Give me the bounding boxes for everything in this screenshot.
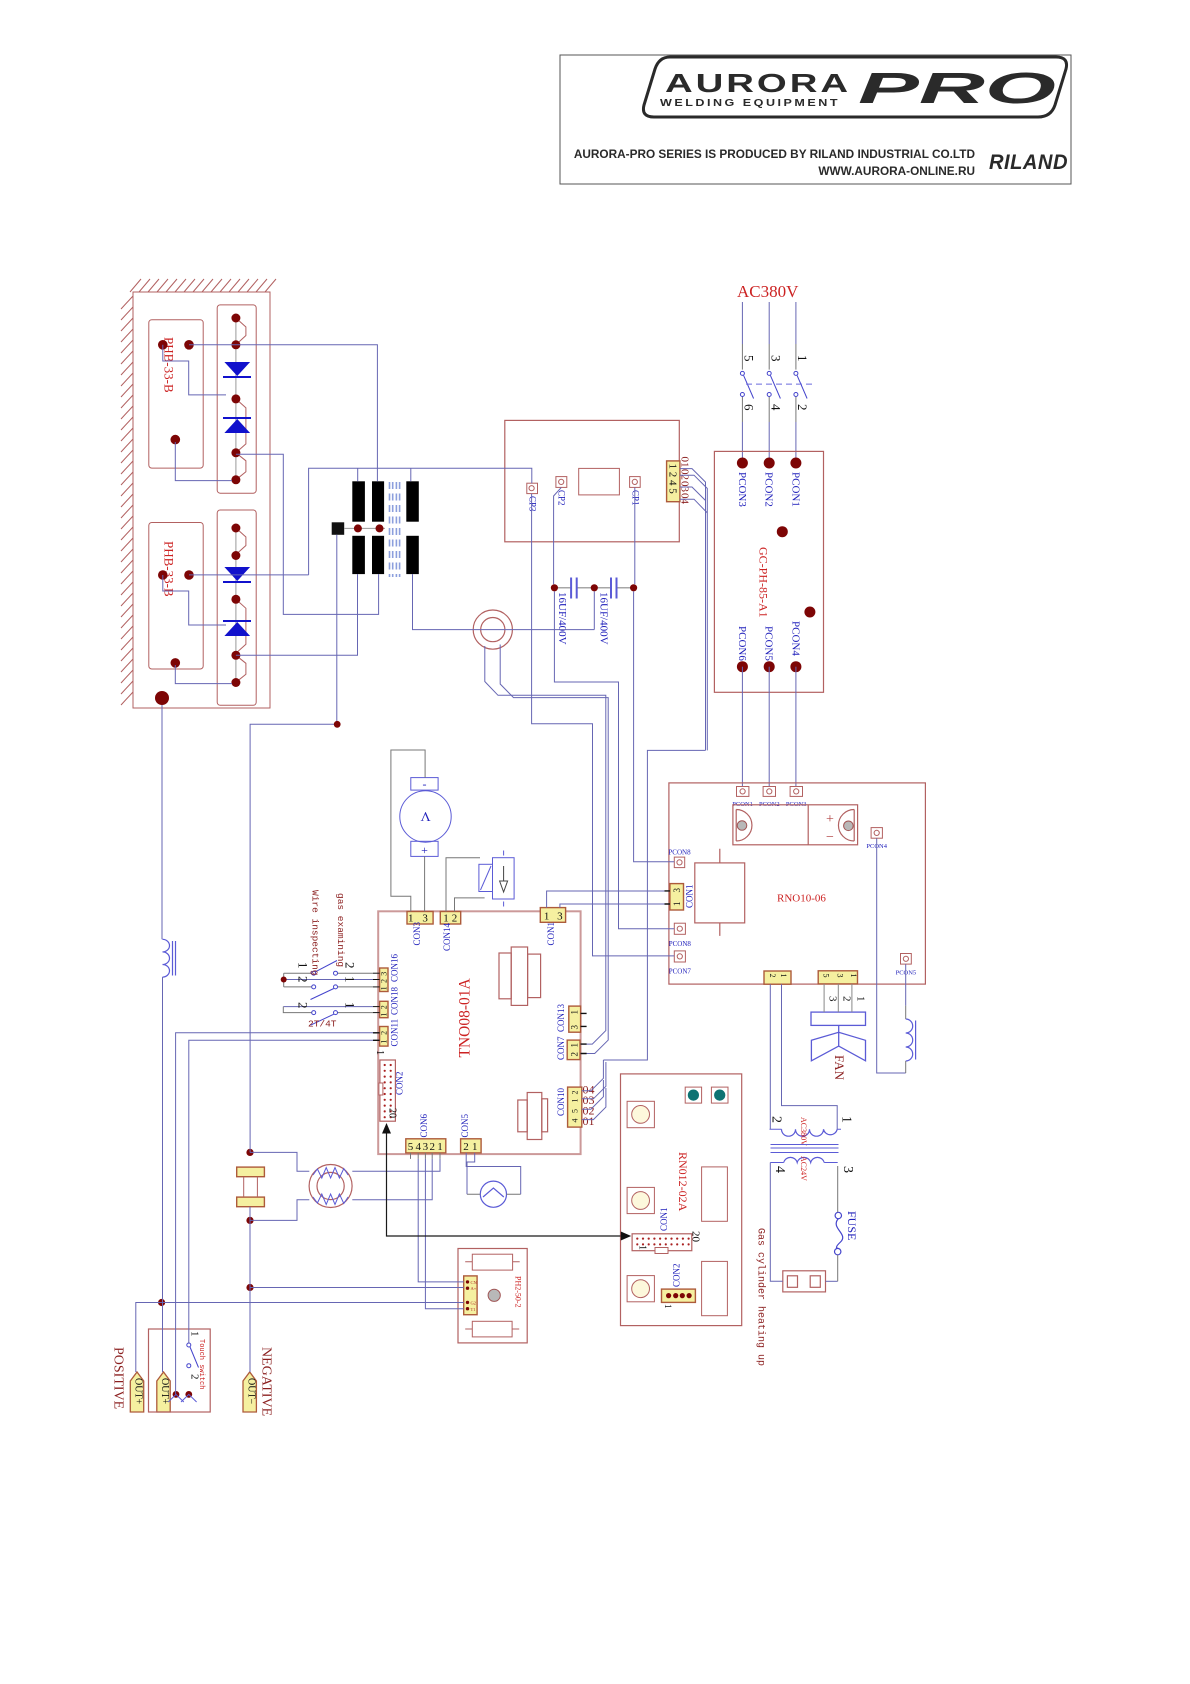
output connector 2pin xyxy=(764,971,791,984)
PCON4 choke xyxy=(906,1019,916,1061)
switch common wire xyxy=(283,973,285,987)
CP2 pad xyxy=(556,477,567,488)
capacitor bus node dots xyxy=(551,584,558,591)
diode D3 xyxy=(224,567,250,581)
relay footprint xyxy=(695,863,745,923)
CP1 pad xyxy=(630,477,641,488)
svg-text:1: 1 xyxy=(544,911,550,923)
TNO08-01A board outline xyxy=(378,911,580,1154)
svg-text:4: 4 xyxy=(415,1141,421,1153)
PCON5 pad xyxy=(901,954,912,965)
voltmeter body xyxy=(400,791,451,842)
PCON1 input pad xyxy=(737,787,749,797)
lower diode chain spine xyxy=(235,528,237,683)
svg-text:2: 2 xyxy=(570,1091,579,1095)
upper module terminal dots xyxy=(158,340,194,444)
switch sw-2T4T row3 xyxy=(283,1002,379,1025)
svg-text:WELDING EQUIPMENT: WELDING EQUIPMENT xyxy=(660,98,840,109)
wire CON11 pin2 to touch dot xyxy=(176,1033,380,1395)
wire CON14 pin2 to valve xyxy=(455,898,485,912)
lower chain red jogs xyxy=(236,528,246,682)
CON7 connector xyxy=(567,1040,580,1060)
wire fanconn pin1 to xfmr2 xyxy=(769,984,771,1129)
switch sw-wire row2 xyxy=(284,985,380,1000)
svg-text:1: 1 xyxy=(570,1099,579,1103)
led green 2 xyxy=(711,1087,728,1103)
svg-text:1: 1 xyxy=(849,974,858,978)
svg-text:CON2: CON2 xyxy=(671,1263,681,1287)
PCON2 pad dot xyxy=(764,458,775,469)
wire module2 to 308 riser xyxy=(189,574,309,576)
ph2 button xyxy=(488,1289,500,1301)
capacitor C1 plates xyxy=(571,578,577,599)
heatsink wall outline xyxy=(133,292,270,708)
svg-text:PCON1: PCON1 xyxy=(789,472,801,507)
OUT+ flag 2 xyxy=(157,1372,170,1412)
ph2 pad top xyxy=(472,1254,512,1270)
svg-text:AC24V: AC24V xyxy=(799,1156,808,1181)
PCON5 pad dot xyxy=(764,661,775,672)
svg-text:1 2 4 5: 1 2 4 5 xyxy=(667,464,679,495)
breaker pole 2 xyxy=(767,371,780,398)
svg-text:2: 2 xyxy=(768,974,777,978)
CON2 connector rn012 xyxy=(662,1289,696,1302)
svg-text:V: V xyxy=(420,808,430,823)
diode D2 xyxy=(224,419,250,433)
wire net02 diag xyxy=(680,475,708,750)
CON5 connector xyxy=(461,1139,482,1153)
heatsink hatching left xyxy=(121,296,133,705)
wire net03 diag xyxy=(680,487,706,501)
phase wires above breaker xyxy=(742,302,796,344)
svg-text:PCON4: PCON4 xyxy=(789,621,801,656)
svg-text:3: 3 xyxy=(380,972,389,976)
svg-text:CON3: CON3 xyxy=(412,921,422,945)
svg-text:2: 2 xyxy=(296,976,311,983)
wire branch col1 top xyxy=(357,468,359,481)
wire out-plus sense xyxy=(162,1302,464,1304)
svg-text:6: 6 xyxy=(742,404,757,411)
output stud terminal xyxy=(155,691,169,705)
RN010-06 board outline xyxy=(669,783,926,984)
secondary winding bars xyxy=(406,481,419,521)
breaker pole 3 xyxy=(794,371,807,398)
svg-text:2T/4T: 2T/4T xyxy=(308,1019,337,1030)
svg-text:CON10: CON10 xyxy=(556,1087,566,1116)
fan wires xyxy=(824,984,852,1012)
wire branch secondary top xyxy=(410,468,412,481)
wire CON10 fan A xyxy=(582,1060,604,1091)
svg-text:OUT+: OUT+ xyxy=(159,1378,170,1405)
wires into GC-PH board xyxy=(742,422,796,463)
svg-text:1: 1 xyxy=(380,1013,389,1017)
CON16 connector xyxy=(380,968,388,992)
wire CON6 pin stubs xyxy=(411,1153,441,1159)
svg-text:PHB-33-B: PHB-33-B xyxy=(162,541,177,597)
wire CT lead A to CON7 pin1 xyxy=(485,646,606,1044)
wire CON6 pin3 to ph2 xyxy=(425,1159,463,1309)
wire CP3 net to PCON7 xyxy=(532,494,675,956)
svg-text:CON6: CON6 xyxy=(419,1113,429,1137)
svg-text:CON5: CON5 xyxy=(460,1113,470,1137)
wire xfmr2 sec left to heater xyxy=(770,1163,783,1282)
wire CON11 pin1 to touch switch xyxy=(189,1040,380,1343)
FAN blades xyxy=(811,1032,865,1061)
svg-text:2: 2 xyxy=(296,1002,311,1009)
svg-text:GC-PH-85-A1: GC-PH-85-A1 xyxy=(757,547,771,618)
svg-text:−: − xyxy=(826,830,834,845)
wire CP1 drop xyxy=(634,487,636,584)
wire CON14 pin1 to valve xyxy=(446,858,480,912)
svg-text:16UF/400V: 16UF/400V xyxy=(597,592,609,645)
wire voltmeter loop xyxy=(391,750,425,912)
center tap dots xyxy=(354,524,362,532)
OUT+ flag 1 xyxy=(130,1372,143,1412)
svg-text:1: 1 xyxy=(854,996,866,1002)
wire top bus module1 to primary xyxy=(189,345,377,482)
CON3 connector xyxy=(407,912,433,925)
ferrite ring xyxy=(473,610,512,649)
CON14 connector xyxy=(440,912,460,925)
svg-text:OUT−: OUT− xyxy=(245,1378,256,1405)
svg-text:CP3: CP3 xyxy=(528,496,538,512)
svg-text:1: 1 xyxy=(569,1010,579,1015)
svg-text:3: 3 xyxy=(422,913,428,925)
display rect 1 xyxy=(702,1167,728,1221)
svg-text:5: 5 xyxy=(742,355,757,362)
svg-text:PCON8: PCON8 xyxy=(669,940,692,948)
wire chain2 to primary col1 xyxy=(236,574,358,655)
CP3 pad xyxy=(527,483,538,493)
svg-text:01: 01 xyxy=(583,1114,595,1128)
CON6 connector xyxy=(406,1139,446,1153)
wire snubber down xyxy=(336,535,338,725)
svg-text:CON18: CON18 xyxy=(389,986,399,1015)
CON18 connector xyxy=(380,1001,388,1017)
gas heater connector xyxy=(783,1271,826,1292)
capacitor C2 plates xyxy=(611,578,617,599)
svg-text:2: 2 xyxy=(380,979,389,983)
svg-text:FUSE: FUSE xyxy=(845,1211,859,1240)
svg-text:TNO08-01A: TNO08-01A xyxy=(456,977,473,1057)
diode D4 xyxy=(224,622,250,636)
black pin stubs RN010 CON1 xyxy=(665,891,670,904)
wire PCON4 to choke xyxy=(877,838,906,1073)
bridge left D pad xyxy=(736,810,752,842)
black pin stubs CON11 xyxy=(373,1033,380,1041)
current transformer ring xyxy=(309,1165,352,1208)
CON10 connector xyxy=(568,1087,582,1127)
gas valve body xyxy=(493,858,515,899)
RN012-02A board outline xyxy=(621,1074,742,1326)
lower chain dots xyxy=(231,524,240,688)
gas valve coil xyxy=(479,864,493,891)
svg-text:3: 3 xyxy=(569,1025,579,1030)
PCON7 pad xyxy=(674,951,685,962)
svg-text:5: 5 xyxy=(822,974,831,978)
wire CON6 pin1 to CT top xyxy=(352,1159,440,1171)
svg-text:2: 2 xyxy=(380,1031,389,1035)
svg-text:CN: CN xyxy=(471,1280,478,1285)
CON1 connector xyxy=(670,884,684,910)
svg-text:CON13: CON13 xyxy=(556,1003,566,1032)
svg-text:1: 1 xyxy=(189,1331,201,1337)
wire net04 diag xyxy=(680,499,708,513)
wire out-plus top xyxy=(161,705,163,939)
lower diode stack box xyxy=(217,510,256,705)
wire CT left bottom xyxy=(250,1200,309,1221)
svg-text:CON1: CON1 xyxy=(684,884,694,908)
svg-text:AURORA: AURORA xyxy=(665,68,851,98)
svg-text:gas examining: gas examining xyxy=(335,893,346,967)
wire CT lead B to CON7 pin2 xyxy=(500,645,608,1054)
edge connector 1245 xyxy=(667,461,680,502)
svg-text:RNO10-06: RNO10-06 xyxy=(777,893,826,905)
svg-text:2: 2 xyxy=(380,1005,389,1009)
touch switch symbol xyxy=(187,1343,191,1347)
svg-text:PCON7: PCON7 xyxy=(669,968,692,976)
upper diode chain spine xyxy=(235,318,237,480)
FUSE symbol xyxy=(835,1212,843,1255)
svg-text:20: 20 xyxy=(690,1231,702,1243)
upper chain dots xyxy=(231,314,240,485)
CON2 ribbon header xyxy=(380,1060,396,1121)
module PHB-33-B upper box xyxy=(149,320,203,468)
CON1 connector xyxy=(540,908,565,923)
svg-text:1: 1 xyxy=(437,1141,443,1153)
svg-text:2: 2 xyxy=(795,404,810,411)
wire fuse gray tails xyxy=(837,1166,839,1281)
junction dot snubber xyxy=(334,721,341,728)
wire TNO08 CON1 pin1 to RN010 xyxy=(547,891,670,908)
primary winding bars xyxy=(352,481,365,521)
snubber block xyxy=(332,522,345,535)
board mounting dot A xyxy=(777,526,788,537)
svg-text:RILAND: RILAND xyxy=(989,151,1068,174)
breaker pole 1 xyxy=(740,371,753,398)
svg-text:1: 1 xyxy=(637,1245,648,1250)
svg-text:PCON6: PCON6 xyxy=(736,626,748,661)
capacitor bus xyxy=(554,587,633,589)
wire step net to CON10 xyxy=(603,750,705,1060)
wire CP2 drop xyxy=(554,487,562,584)
wire choke gray tails xyxy=(905,1006,907,1073)
svg-text:OUT+: OUT+ xyxy=(133,1378,144,1405)
diode D1 xyxy=(224,362,250,376)
svg-text:1: 1 xyxy=(374,1050,385,1055)
touch switch lead crimps xyxy=(168,1394,196,1402)
ph2 connector xyxy=(464,1276,477,1315)
control transformer primary coil xyxy=(782,1129,838,1136)
svg-text:RN012-02A: RN012-02A xyxy=(676,1152,690,1212)
PCON3 pad dot xyxy=(737,458,748,469)
svg-text:CP1: CP1 xyxy=(631,490,641,506)
svg-text:PCON3: PCON3 xyxy=(736,472,748,507)
center tap link xyxy=(344,527,385,529)
svg-text:+: + xyxy=(421,843,428,857)
wire CT left top xyxy=(250,1152,309,1171)
svg-text:4: 4 xyxy=(768,404,783,411)
logo slanted rounded frame xyxy=(643,57,1066,117)
wire CON6 pin2 to CT bottom xyxy=(352,1159,432,1200)
svg-text:CON16: CON16 xyxy=(389,953,399,982)
svg-text:5: 5 xyxy=(408,1141,414,1153)
svg-text:CON1: CON1 xyxy=(659,1207,669,1231)
svg-text:3: 3 xyxy=(836,974,845,978)
FAN body xyxy=(811,1012,866,1025)
svg-text:2: 2 xyxy=(463,1141,469,1153)
svg-text:CON11: CON11 xyxy=(389,1019,399,1047)
CON11 connector xyxy=(380,1027,388,1047)
wire CP1 net to PCON8 upper xyxy=(634,591,675,861)
PCON4 pad xyxy=(871,828,882,839)
svg-text:1: 1 xyxy=(672,902,682,907)
ph2 pad bottom xyxy=(472,1321,512,1337)
svg-text:3: 3 xyxy=(557,911,563,923)
bridge rectifier body xyxy=(733,805,858,845)
breaker gang dashed link xyxy=(746,383,812,385)
board mounting dot B xyxy=(804,607,815,618)
fan connector 3pin xyxy=(818,971,857,984)
potentiometer 2 xyxy=(627,1187,654,1213)
hall sensor coil xyxy=(163,939,176,977)
svg-text:PCON5: PCON5 xyxy=(763,626,775,661)
svg-text:4: 4 xyxy=(570,1119,579,1123)
svg-text:AC380V: AC380V xyxy=(799,1117,808,1146)
wire out-minus choke lower xyxy=(249,1207,251,1372)
wire PCON5 to choke top xyxy=(905,964,907,1006)
wire fanconn pin2 to xfmr2 xyxy=(782,984,838,1129)
svg-text:PRO: PRO xyxy=(858,64,1056,113)
wire out-plus flag1 xyxy=(136,1303,162,1373)
board transformer footprint upper xyxy=(499,947,541,1005)
wire secondary bottom to cap node xyxy=(413,574,595,630)
module PHB-33-B lower box xyxy=(149,523,203,670)
svg-text:AC380V: AC380V xyxy=(737,282,799,301)
svg-text:1: 1 xyxy=(839,1116,854,1123)
potentiometer 3 xyxy=(627,1276,654,1302)
secondary coil xyxy=(784,1157,825,1162)
svg-text:G2: G2 xyxy=(471,1301,477,1306)
transformer core lines xyxy=(771,1145,839,1153)
PH2-50-2 board outline xyxy=(458,1249,527,1343)
svg-text:3: 3 xyxy=(423,1141,429,1153)
svg-text:CP2: CP2 xyxy=(557,490,567,506)
svg-text:3: 3 xyxy=(840,1166,855,1173)
svg-text:FAN: FAN xyxy=(832,1055,847,1081)
svg-text:01: 01 xyxy=(679,457,691,468)
svg-text:2: 2 xyxy=(841,996,853,1002)
svg-text:1: 1 xyxy=(569,1043,579,1048)
wire out-minus horizontal xyxy=(250,724,337,1152)
lower module terminal dots xyxy=(158,570,194,668)
svg-text:1: 1 xyxy=(342,976,357,983)
PCON3 input pad xyxy=(790,787,802,797)
svg-text:3: 3 xyxy=(768,355,783,362)
led green 1 xyxy=(685,1087,701,1103)
driver ic rect xyxy=(579,468,620,495)
wire TNO08 CON1 pin3 to RN010 xyxy=(560,904,670,908)
board transformer footprint lower xyxy=(518,1093,548,1140)
svg-text:+: + xyxy=(826,812,834,827)
PCON4 pad dot xyxy=(790,661,801,672)
bridge right D pad xyxy=(838,810,854,842)
wire net01 diag xyxy=(680,469,706,751)
wire fuse to heater xyxy=(826,1280,838,1282)
wire chain1 to primary col2 xyxy=(236,454,379,614)
ribbon arrowhead up xyxy=(382,1123,391,1134)
svg-text:1: 1 xyxy=(472,1141,478,1153)
svg-text:16UF/400V: 16UF/400V xyxy=(556,592,568,645)
header border box xyxy=(560,55,1071,184)
upper module internal wires xyxy=(163,345,226,395)
svg-text:PCON8: PCON8 xyxy=(668,849,691,857)
switch sw-gas row1 xyxy=(284,961,380,976)
svg-text:1: 1 xyxy=(296,962,311,969)
svg-text:1: 1 xyxy=(779,974,788,978)
upper chain red jogs xyxy=(236,318,246,480)
svg-text:CON1: CON1 xyxy=(546,922,556,946)
svg-text:2: 2 xyxy=(569,1052,579,1057)
svg-text:20: 20 xyxy=(387,1108,398,1118)
heatsink hatching top xyxy=(130,279,276,292)
svg-text:1: 1 xyxy=(380,1040,389,1044)
driver board outline xyxy=(505,420,680,541)
svg-text:4: 4 xyxy=(772,1166,787,1173)
svg-text:02: 02 xyxy=(679,469,691,480)
wire out-plus bottom xyxy=(161,977,164,1372)
gas test lamp xyxy=(480,1181,506,1207)
svg-text:3: 3 xyxy=(672,888,682,893)
svg-text:5: 5 xyxy=(570,1109,579,1113)
wire out-minus sense xyxy=(250,1287,464,1289)
svg-text:CON14: CON14 xyxy=(442,922,452,951)
touch switch lead dots xyxy=(173,1391,180,1398)
CON13 connector xyxy=(569,1006,581,1032)
CON1 ribbon header rn012 xyxy=(632,1234,692,1251)
wire CON10 fan D xyxy=(582,1088,606,1120)
black pin stubs CON7 xyxy=(581,1044,587,1053)
wire CON10 fan C xyxy=(582,1080,604,1109)
svg-text:Touch switch: Touch switch xyxy=(197,1339,205,1389)
svg-text:WWW.AURORA-ONLINE.RU: WWW.AURORA-ONLINE.RU xyxy=(818,164,975,178)
transformer core dashes xyxy=(390,482,400,577)
svg-text:1: 1 xyxy=(380,986,389,990)
CT winding zigzag top xyxy=(313,1168,348,1179)
svg-text:Wire inspecting: Wire inspecting xyxy=(309,890,320,976)
touch switch box xyxy=(149,1329,211,1412)
potentiometer 1 xyxy=(627,1101,654,1127)
OUT- flag xyxy=(243,1372,256,1412)
ribbon arrowhead right xyxy=(621,1232,631,1241)
ribbon cable line xyxy=(387,1133,621,1236)
upper diode stack box xyxy=(217,305,256,493)
voltmeter plus box xyxy=(411,841,438,856)
PCON8 pad lower xyxy=(674,923,685,934)
wire CON5 pin1 to lamp xyxy=(467,1153,475,1194)
wires GC-PH to RN010 xyxy=(742,667,796,786)
svg-text:POSITIVE: POSITIVE xyxy=(111,1347,126,1409)
svg-text:2: 2 xyxy=(452,913,458,925)
PCON2 input pad xyxy=(763,787,775,797)
CON13 stubs xyxy=(581,1013,587,1026)
svg-text:1: 1 xyxy=(663,1304,673,1309)
voltmeter minus box xyxy=(411,778,438,791)
svg-text:1: 1 xyxy=(443,913,449,925)
inductor node dots xyxy=(246,1149,253,1156)
svg-text:CON7: CON7 xyxy=(556,1036,566,1060)
wire CON10 fan B xyxy=(582,1062,606,1099)
